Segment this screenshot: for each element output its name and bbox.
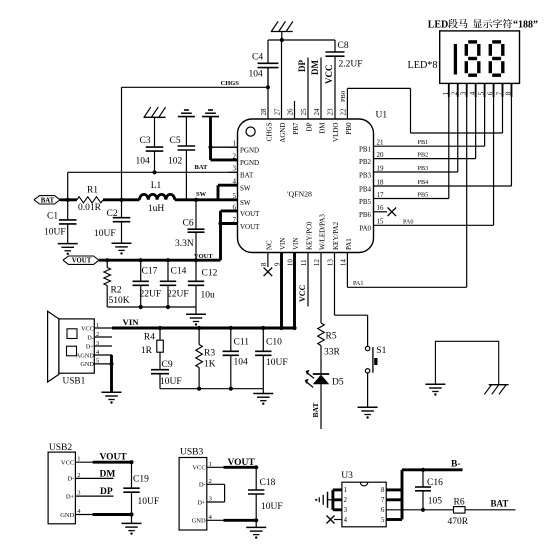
svg-text:C9: C9 bbox=[162, 360, 173, 370]
svg-text:PA1: PA1 bbox=[345, 238, 353, 250]
svg-text:DP: DP bbox=[100, 487, 113, 497]
svg-text:33R: 33R bbox=[324, 348, 341, 358]
wire U3 pin6 row bbox=[386, 509, 453, 511]
svg-text:1K: 1K bbox=[204, 360, 216, 370]
node top gnd junction bbox=[280, 38, 284, 42]
svg-text:23: 23 bbox=[327, 108, 335, 116]
svg-text:D5: D5 bbox=[332, 378, 344, 388]
svg-text:U1: U1 bbox=[376, 111, 388, 121]
chassis ground top bbox=[271, 31, 293, 33]
ground C12 bbox=[186, 313, 206, 315]
capacitor C17 bbox=[140, 260, 142, 281]
svg-text:1R: 1R bbox=[141, 346, 153, 356]
resistor R6 bbox=[454, 507, 466, 513]
svg-text:VCC: VCC bbox=[192, 465, 205, 472]
svg-text:1: 1 bbox=[77, 456, 80, 463]
svg-text:11: 11 bbox=[300, 259, 308, 266]
svg-text:C16: C16 bbox=[427, 478, 443, 488]
capacitor C14 bbox=[167, 260, 169, 281]
node VIN junction bbox=[158, 326, 162, 330]
LED pin 4 bbox=[475, 83, 477, 97]
svg-text:3: 3 bbox=[209, 496, 212, 503]
inductor L1 bbox=[140, 194, 175, 199]
svg-text:102: 102 bbox=[168, 157, 183, 167]
svg-text:USB1: USB1 bbox=[63, 377, 86, 387]
wire USB2 GND bbox=[93, 513, 132, 516]
svg-text:C5: C5 bbox=[170, 136, 181, 146]
svg-text:SW: SW bbox=[240, 185, 251, 193]
svg-text:1: 1 bbox=[209, 461, 212, 468]
resistor R2 bbox=[106, 260, 108, 267]
wire VOUT bus bbox=[99, 259, 221, 262]
svg-text:NC: NC bbox=[266, 240, 274, 250]
USB1 pin 4 bbox=[94, 354, 112, 356]
svg-text:3: 3 bbox=[344, 507, 348, 514]
svg-text:20: 20 bbox=[377, 151, 385, 159]
wire PGND bbox=[209, 117, 212, 160]
wire PA1 bbox=[346, 253, 348, 288]
U1 pin 4 stub bbox=[229, 184, 238, 186]
LED pin 3 bbox=[466, 83, 468, 97]
svg-text:C4: C4 bbox=[252, 53, 263, 63]
svg-text:PB5: PB5 bbox=[359, 198, 372, 206]
svg-text:R2: R2 bbox=[111, 286, 122, 296]
svg-text:VCC: VCC bbox=[324, 65, 334, 85]
wire VIN caps bottom rail bbox=[160, 388, 263, 390]
wire PB3 bbox=[374, 171, 458, 173]
svg-text:510K: 510K bbox=[109, 296, 130, 306]
svg-text:7: 7 bbox=[496, 91, 504, 95]
wire USB1 gnd bbox=[110, 355, 113, 392]
resistor R5 on pin12 bbox=[320, 253, 322, 324]
svg-text:DM: DM bbox=[100, 469, 116, 479]
svg-text:6: 6 bbox=[381, 507, 385, 514]
node BAT row C3 bbox=[152, 170, 156, 174]
svg-text:PA0: PA0 bbox=[403, 218, 413, 225]
ground S1 bbox=[358, 406, 378, 408]
svg-text:13: 13 bbox=[327, 259, 335, 267]
capacitor C8 bbox=[334, 40, 336, 52]
LED pin 1 bbox=[448, 83, 450, 97]
svg-text:D-: D- bbox=[67, 476, 74, 483]
svg-text:CHGS: CHGS bbox=[266, 122, 274, 141]
svg-text:14: 14 bbox=[340, 259, 348, 267]
svg-text:R3: R3 bbox=[204, 349, 215, 359]
svg-text:PB0: PB0 bbox=[340, 91, 347, 102]
svg-text:VIN: VIN bbox=[123, 317, 140, 327]
ground USB1 bbox=[102, 391, 122, 393]
svg-text:PB6: PB6 bbox=[359, 211, 372, 219]
svg-text:R6: R6 bbox=[454, 498, 465, 508]
ground C10 bbox=[253, 393, 273, 395]
svg-text:BAT: BAT bbox=[195, 164, 209, 171]
svg-text:C1: C1 bbox=[47, 212, 58, 222]
wire VIN bus bbox=[112, 327, 295, 330]
resistor R3 bbox=[198, 328, 200, 345]
svg-text:3.3N: 3.3N bbox=[175, 239, 194, 249]
wire BAT row pin3 bbox=[68, 171, 238, 173]
wire CHGS bbox=[122, 86, 268, 88]
svg-text:AGND: AGND bbox=[76, 352, 94, 359]
wire PA0 bbox=[374, 224, 494, 226]
ground C1 bbox=[58, 243, 78, 245]
U1 pin 7 stub bbox=[229, 223, 238, 225]
LED pin 5 bbox=[484, 83, 486, 97]
svg-text:C8: C8 bbox=[338, 41, 349, 51]
svg-text:C10: C10 bbox=[266, 338, 282, 348]
USB3 pin 4 bbox=[207, 519, 224, 521]
svg-text:104: 104 bbox=[249, 70, 264, 80]
svg-text:1: 1 bbox=[344, 487, 347, 494]
svg-text:24: 24 bbox=[313, 108, 321, 116]
svg-text:S1: S1 bbox=[376, 346, 386, 356]
svg-text:21: 21 bbox=[377, 139, 385, 147]
wire top gnd horizontal bbox=[268, 39, 335, 41]
node BAT C2 bbox=[119, 198, 123, 202]
svg-text:BAT: BAT bbox=[311, 403, 320, 418]
svg-text:L1: L1 bbox=[151, 181, 162, 191]
LED pin 8 bbox=[510, 83, 512, 97]
svg-text:2.2UF: 2.2UF bbox=[339, 60, 363, 70]
svg-text:8: 8 bbox=[260, 262, 268, 266]
LED display box bbox=[440, 31, 520, 84]
wire U3 left bar bbox=[331, 490, 334, 510]
svg-text:4: 4 bbox=[344, 517, 348, 524]
capacitor C9 bbox=[159, 352, 161, 370]
LED digit 1 bbox=[454, 44, 457, 75]
capacitor C12 bbox=[195, 260, 197, 281]
svg-text:C14: C14 bbox=[171, 267, 187, 277]
svg-text:C11: C11 bbox=[234, 338, 250, 348]
USB1 pin 5 bbox=[94, 363, 112, 365]
tag BAT bbox=[34, 196, 60, 204]
USB2 pin 3 bbox=[75, 495, 92, 497]
svg-text:C3: C3 bbox=[140, 136, 151, 146]
svg-text:1: 1 bbox=[96, 322, 99, 329]
svg-text:5: 5 bbox=[96, 358, 99, 365]
USB2 pin 2 bbox=[75, 477, 92, 479]
svg-text:R5: R5 bbox=[326, 332, 337, 342]
U1 pin 1 stub bbox=[229, 146, 238, 148]
svg-text:15: 15 bbox=[377, 218, 385, 226]
wire pin24 DM bbox=[320, 58, 322, 120]
svg-text:SW: SW bbox=[240, 199, 251, 207]
svg-text:104: 104 bbox=[136, 157, 151, 167]
USB1 pin 3 bbox=[94, 345, 112, 347]
wire USB2 DP bbox=[93, 495, 114, 497]
svg-text:VIN: VIN bbox=[292, 238, 300, 250]
resistor R1 bbox=[77, 197, 103, 203]
svg-text:W/LED/PA3: W/LED/PA3 bbox=[319, 214, 327, 250]
capacitor C4 bbox=[267, 40, 269, 63]
svg-text:10UF: 10UF bbox=[138, 497, 160, 507]
U1 pin 3 stub bbox=[229, 171, 238, 173]
svg-text:2: 2 bbox=[344, 497, 348, 504]
svg-text:DP: DP bbox=[297, 60, 307, 72]
USB3 pin 1 bbox=[207, 466, 224, 468]
svg-text:B-: B- bbox=[451, 460, 461, 470]
wire BAT to R1 bbox=[60, 198, 77, 201]
svg-text:DM: DM bbox=[319, 122, 327, 134]
svg-text:22: 22 bbox=[340, 108, 348, 116]
svg-text:C2: C2 bbox=[107, 209, 118, 219]
USB3 pin 3 bbox=[207, 501, 224, 503]
wire C18 gnd bbox=[255, 520, 257, 527]
USB1 pin 1 bbox=[94, 327, 112, 329]
ground U3 left bbox=[328, 499, 333, 501]
capacitor C1 bbox=[67, 200, 69, 220]
svg-text:26: 26 bbox=[287, 108, 295, 116]
svg-text:7: 7 bbox=[381, 497, 385, 504]
svg-text:12: 12 bbox=[313, 259, 321, 267]
LED pin 6 bbox=[493, 83, 495, 97]
svg-text:KEY/PC0: KEY/PC0 bbox=[306, 221, 314, 250]
svg-text:D+: D+ bbox=[66, 493, 75, 500]
node BAT C1 bbox=[66, 198, 70, 202]
svg-text:PGND: PGND bbox=[240, 147, 259, 155]
svg-text:PB5: PB5 bbox=[418, 192, 429, 199]
svg-text:PB4: PB4 bbox=[359, 185, 372, 193]
svg-text:C17: C17 bbox=[142, 267, 158, 277]
wire pin13 to S1 bbox=[334, 253, 336, 316]
svg-text:105: 105 bbox=[428, 496, 443, 506]
svg-text:PGND: PGND bbox=[240, 159, 259, 167]
wire pin8 NC stub bbox=[267, 253, 269, 268]
svg-text:LED: LED bbox=[428, 19, 449, 30]
svg-text:22UF: 22UF bbox=[140, 290, 162, 300]
svg-text:PA0: PA0 bbox=[359, 225, 371, 233]
wire pin27 AGND up bbox=[281, 40, 283, 119]
svg-text:PB1: PB1 bbox=[359, 146, 372, 154]
svg-text:5: 5 bbox=[381, 517, 385, 524]
svg-text:AGND: AGND bbox=[279, 123, 287, 143]
svg-text:VOUT: VOUT bbox=[228, 458, 256, 468]
svg-text:27: 27 bbox=[274, 108, 282, 116]
svg-text:D-: D- bbox=[87, 334, 94, 341]
svg-text:17: 17 bbox=[377, 191, 385, 199]
wire pin26 stub bbox=[294, 101, 296, 119]
svg-text:0.01R: 0.01R bbox=[78, 203, 102, 213]
chassis ground C3 bbox=[144, 116, 166, 118]
wire USB3 GND bbox=[224, 519, 257, 522]
svg-text:10UF: 10UF bbox=[261, 502, 283, 512]
svg-text:C18: C18 bbox=[260, 478, 276, 488]
wire C10 ground bbox=[262, 389, 264, 394]
svg-text:GND: GND bbox=[192, 518, 206, 525]
U1 pin 2 stub bbox=[229, 159, 238, 161]
ground C5 symbol bbox=[178, 116, 195, 118]
wire pin10 VIN bbox=[293, 253, 296, 329]
wire SW bbox=[175, 198, 238, 201]
svg-text:PB3: PB3 bbox=[359, 171, 372, 179]
svg-text:PB2: PB2 bbox=[418, 152, 429, 159]
capacitor C19 bbox=[129, 460, 133, 464]
IC U1 QFN28 body bbox=[238, 119, 374, 253]
wire B- bbox=[402, 468, 463, 471]
svg-text:8: 8 bbox=[381, 487, 385, 494]
wire R1 to L1 bbox=[103, 198, 140, 201]
svg-text:'QFN28: 'QFN28 bbox=[287, 189, 312, 198]
chassis ground right bbox=[489, 384, 509, 386]
svg-text:DP: DP bbox=[306, 122, 314, 131]
LED digit 8 first bbox=[468, 40, 477, 43]
USB2 pin 1 bbox=[75, 461, 92, 463]
wire PB5 bbox=[374, 198, 449, 200]
svg-text:R1: R1 bbox=[87, 186, 98, 196]
capacitor C11 bbox=[230, 328, 232, 351]
node VIN junction bbox=[292, 326, 296, 330]
wire PB1 bbox=[374, 145, 485, 147]
svg-text:PB3: PB3 bbox=[418, 165, 429, 172]
wire PB6 nc bbox=[374, 211, 388, 213]
U3 pin4 nc bbox=[334, 519, 342, 521]
ground USB3 bbox=[246, 526, 266, 528]
wire C12 to ground bbox=[195, 307, 197, 314]
svg-text:D+: D+ bbox=[86, 343, 94, 350]
node VOUT junction bbox=[166, 258, 170, 262]
svg-text:R4: R4 bbox=[144, 333, 155, 343]
svg-text:PB4: PB4 bbox=[418, 179, 429, 186]
node VIN junction bbox=[261, 326, 265, 330]
svg-text:BAT: BAT bbox=[240, 172, 254, 180]
svg-text:3: 3 bbox=[233, 165, 237, 173]
svg-text:GND: GND bbox=[60, 512, 74, 519]
svg-text:D-: D- bbox=[199, 482, 206, 489]
svg-text:2: 2 bbox=[77, 472, 80, 479]
node VIN junction bbox=[197, 326, 201, 330]
svg-text:VCC: VCC bbox=[298, 284, 307, 302]
svg-text:28: 28 bbox=[260, 108, 268, 116]
svg-text:D+: D+ bbox=[197, 499, 206, 506]
node VIN junction bbox=[229, 326, 233, 330]
svg-text:2: 2 bbox=[96, 331, 99, 338]
USB3 pin 2 bbox=[207, 483, 224, 485]
svg-text:10u: 10u bbox=[201, 291, 216, 301]
svg-text:KEY/PA2: KEY/PA2 bbox=[332, 221, 340, 250]
svg-text:VOUT: VOUT bbox=[240, 210, 260, 218]
wire grounds bracket bbox=[435, 341, 498, 384]
capacitor C16 bbox=[421, 468, 425, 472]
svg-text:BAT: BAT bbox=[491, 498, 509, 508]
svg-text:16: 16 bbox=[377, 204, 385, 212]
node VOUT junction bbox=[194, 258, 198, 262]
svg-text:PA1: PA1 bbox=[353, 280, 363, 287]
svg-text:10UF: 10UF bbox=[44, 228, 66, 238]
svg-text:BAT: BAT bbox=[41, 197, 55, 204]
LED pin 2 bbox=[457, 83, 459, 97]
wire VOUT caps bottom rail bbox=[107, 306, 196, 308]
U1 pin 6 stub bbox=[229, 210, 238, 212]
node SW C6 bbox=[194, 198, 198, 202]
USB1 pin 2 bbox=[94, 336, 112, 338]
capacitor C2 bbox=[121, 200, 123, 218]
wire USB2 DM bbox=[93, 477, 114, 479]
wire PB2 bbox=[374, 158, 476, 160]
svg-text:VOUT: VOUT bbox=[72, 258, 92, 265]
LED D5 bbox=[320, 346, 322, 375]
resistor R4 bbox=[159, 328, 161, 340]
svg-text:PB1: PB1 bbox=[418, 139, 429, 146]
svg-text:“188”: “188” bbox=[513, 19, 538, 30]
LED digit 8 second bbox=[492, 40, 501, 43]
svg-text:3: 3 bbox=[96, 340, 99, 347]
ground USB2 bbox=[122, 522, 142, 524]
svg-text:PB2: PB2 bbox=[359, 158, 372, 166]
wire USB2 VOUT bbox=[93, 461, 132, 464]
svg-text:SW: SW bbox=[196, 191, 207, 198]
svg-text:10UF: 10UF bbox=[94, 229, 116, 239]
svg-text:10UF: 10UF bbox=[160, 377, 182, 387]
wire USB3 D- D+ short bbox=[224, 483, 225, 485]
svg-text:PB0: PB0 bbox=[345, 122, 353, 135]
svg-text:VOUT: VOUT bbox=[100, 453, 128, 463]
capacitor C18 bbox=[254, 465, 258, 469]
U1 pin 5 stub bbox=[229, 199, 238, 201]
wire CHGS vertical to BAT bbox=[121, 87, 123, 200]
svg-text:USB3: USB3 bbox=[180, 447, 203, 457]
wire C19 gnd bbox=[131, 515, 133, 524]
LED pin 7 bbox=[502, 83, 504, 97]
svg-text:3: 3 bbox=[77, 490, 80, 497]
svg-text:1: 1 bbox=[233, 140, 237, 148]
svg-text:VCC: VCC bbox=[61, 460, 74, 467]
wire pin25 DP bbox=[307, 58, 309, 120]
wire SW riser pin4 bbox=[217, 185, 220, 200]
ground earth left bbox=[425, 383, 445, 385]
capacitor C6 bbox=[195, 200, 197, 229]
wire USB3 VOUT bbox=[224, 466, 257, 469]
node VIN junction bbox=[279, 326, 283, 330]
svg-text:CHGS: CHGS bbox=[221, 80, 240, 87]
svg-text:25: 25 bbox=[300, 108, 308, 116]
svg-text:VLDO: VLDO bbox=[332, 123, 340, 142]
svg-text:GND: GND bbox=[80, 361, 94, 368]
svg-text:VIN: VIN bbox=[279, 238, 287, 250]
wire pin9 VIN bbox=[280, 253, 283, 329]
ground C2 bbox=[112, 242, 132, 244]
svg-text:1uH: 1uH bbox=[148, 204, 165, 214]
svg-text:VOUT: VOUT bbox=[240, 223, 260, 231]
capacitor C10 bbox=[262, 328, 264, 351]
node VOUT junction bbox=[139, 258, 143, 262]
wire U3 right bar B- bbox=[401, 470, 404, 520]
svg-text:19: 19 bbox=[377, 164, 385, 172]
capacitor C3 bbox=[154, 117, 156, 147]
svg-text:18: 18 bbox=[377, 178, 385, 186]
svg-text:22UF: 22UF bbox=[167, 290, 189, 300]
node CHGS junction bbox=[266, 85, 270, 89]
svg-text:C6: C6 bbox=[183, 219, 194, 229]
svg-text:C12: C12 bbox=[202, 269, 218, 279]
svg-text:104: 104 bbox=[234, 358, 249, 368]
wire BAT row drop bbox=[67, 172, 69, 200]
svg-text:C19: C19 bbox=[133, 474, 149, 484]
connector USB1 plug bbox=[48, 311, 59, 382]
svg-text:470R: 470R bbox=[448, 517, 469, 527]
switch S1 bbox=[365, 346, 369, 350]
svg-text:2: 2 bbox=[209, 478, 212, 485]
svg-text:VCC: VCC bbox=[81, 325, 94, 332]
wire pin11 VCC bbox=[307, 253, 309, 307]
svg-text:10UF: 10UF bbox=[266, 358, 288, 368]
wire VOUT riser bbox=[219, 211, 222, 260]
svg-text:U3: U3 bbox=[341, 471, 353, 481]
tag VOUT bbox=[63, 256, 99, 264]
capacitor C5 bbox=[185, 117, 187, 146]
svg-text:PB7: PB7 bbox=[292, 122, 300, 135]
node VOUT junction bbox=[105, 258, 109, 262]
wire S1 to ground bbox=[367, 373, 369, 407]
